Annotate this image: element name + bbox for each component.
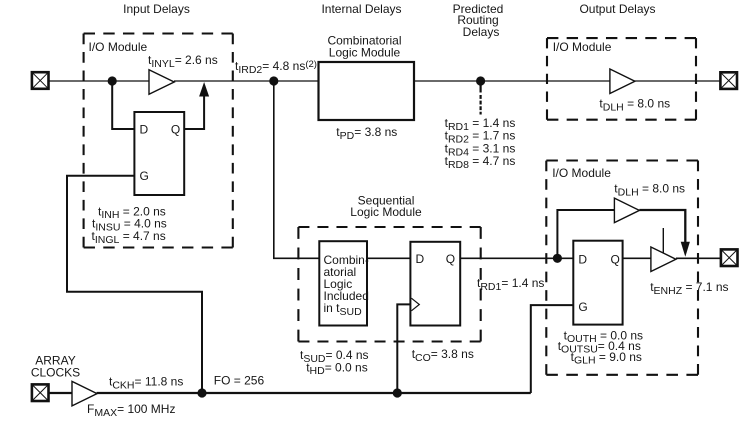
- svg-text:tPD= 3.8 ns: tPD= 3.8 ns: [336, 125, 397, 142]
- node: junction at combinatorial input: [269, 76, 278, 85]
- buffer: array clock buffer: [72, 381, 97, 406]
- svg-text:CLOCKS: CLOCKS: [31, 365, 80, 379]
- wire: clock net: [97, 392, 531, 394]
- tristate output buffer: [651, 247, 676, 272]
- svg-text:Logic Module: Logic Module: [350, 205, 422, 219]
- wire: comb box to flip-flop D: [367, 257, 410, 259]
- node: junction at output latch D: [553, 254, 562, 263]
- latch: input latch: [134, 112, 184, 195]
- svg-text:FMAX= 100 MHz: FMAX= 100 MHz: [87, 402, 175, 419]
- wire: tristate buffer to output pad: [676, 257, 721, 259]
- svg-text:G: G: [578, 300, 587, 314]
- svg-text:D: D: [416, 252, 425, 266]
- svg-text:I/O Module: I/O Module: [552, 166, 611, 180]
- array clock pad: [32, 384, 49, 401]
- node: clock junction at sequential FF: [393, 388, 402, 397]
- wire: sequential FF Q to output latch D: [460, 257, 573, 259]
- I/O module dashed box (input): [84, 32, 233, 34]
- svg-text:tINYL= 2.6 ns: tINYL= 2.6 ns: [148, 53, 218, 70]
- svg-text:Q: Q: [446, 252, 455, 266]
- svg-text:Output Delays: Output Delays: [579, 2, 655, 16]
- wire: output latch Q to tristate buffer: [623, 257, 651, 259]
- wire: Q of input latch up to input net: [184, 93, 204, 129]
- buffer: enable buffer: [614, 198, 639, 223]
- buffer: input buffer: [149, 70, 174, 94]
- wire: enable path riser and run: [557, 210, 614, 258]
- svg-text:G: G: [140, 169, 149, 183]
- svg-text:tCKH= 11.8 ns: tCKH= 11.8 ns: [109, 375, 183, 392]
- svg-text:I/O Module: I/O Module: [89, 40, 148, 54]
- I/O module dashed box (lower output): [546, 159, 698, 161]
- svg-text:tDLH = 8.0 ns: tDLH = 8.0 ns: [614, 182, 685, 199]
- wire: enable buffer to arrow drop: [639, 210, 685, 243]
- svg-text:Internal Delays: Internal Delays: [321, 2, 401, 16]
- enable stub on tristate buffer: [662, 228, 664, 253]
- svg-text:Delays: Delays: [463, 25, 500, 39]
- input pad: [32, 72, 49, 89]
- svg-text:Input Delays: Input Delays: [123, 2, 190, 16]
- output pad (upper): [720, 72, 737, 89]
- arrowhead: enable onto output net: [681, 242, 690, 257]
- svg-text:D: D: [578, 253, 587, 267]
- svg-text:I/O Module: I/O Module: [553, 40, 612, 54]
- arrowhead: latch Q into input net: [199, 82, 209, 97]
- node: predicted routing junction: [476, 76, 485, 85]
- combinatorial-in-tSUD box: [319, 241, 367, 325]
- svg-text:Q: Q: [171, 123, 180, 137]
- dotted routing stub: [480, 83, 482, 93]
- wire: G of input latch to array clock net: [67, 176, 202, 393]
- svg-text:D: D: [140, 123, 149, 137]
- node: input net junction: [108, 76, 117, 85]
- svg-text:tCO= 3.8 ns: tCO= 3.8 ns: [412, 347, 474, 364]
- wire: input pad to input buffer: [49, 80, 150, 82]
- I/O module dashed box (upper output): [547, 37, 696, 39]
- output pad (lower): [721, 249, 738, 266]
- clock wedge (sequential FF): [411, 298, 419, 311]
- sequential logic module dashed box: [298, 226, 480, 228]
- svg-text:tIRD2= 4.8 ns(2): tIRD2= 4.8 ns(2): [235, 59, 317, 76]
- wire: combinatorial module to output section: [414, 80, 721, 82]
- svg-text:Q: Q: [611, 253, 620, 267]
- wire: clock pad to clock buffer: [49, 392, 73, 394]
- svg-text:tDLH = 8.0 ns: tDLH = 8.0 ns: [599, 97, 670, 114]
- flip-flop: sequential module FF: [410, 242, 460, 326]
- svg-text:tENHZ = 7.1 ns: tENHZ = 7.1 ns: [650, 280, 728, 297]
- latch: output latch: [573, 241, 622, 325]
- svg-text:tRD1= 1.4 ns: tRD1= 1.4 ns: [477, 276, 544, 293]
- wire: junction to D of input latch: [112, 81, 134, 129]
- svg-text:Logic Module: Logic Module: [329, 46, 401, 60]
- combinatorial logic module box: [319, 62, 415, 120]
- svg-text:FO = 256: FO = 256: [214, 374, 265, 388]
- wire: clock net to sequential FF clock pin: [397, 304, 410, 393]
- buffer: upper output buffer: [610, 69, 635, 94]
- wire: combinatorial input junction down into sequential module: [274, 81, 320, 258]
- wire: clock net riser to output latch G: [531, 305, 574, 393]
- wire: input buffer to combinatorial module: [174, 80, 319, 82]
- node: clock junction at G network: [197, 388, 206, 397]
